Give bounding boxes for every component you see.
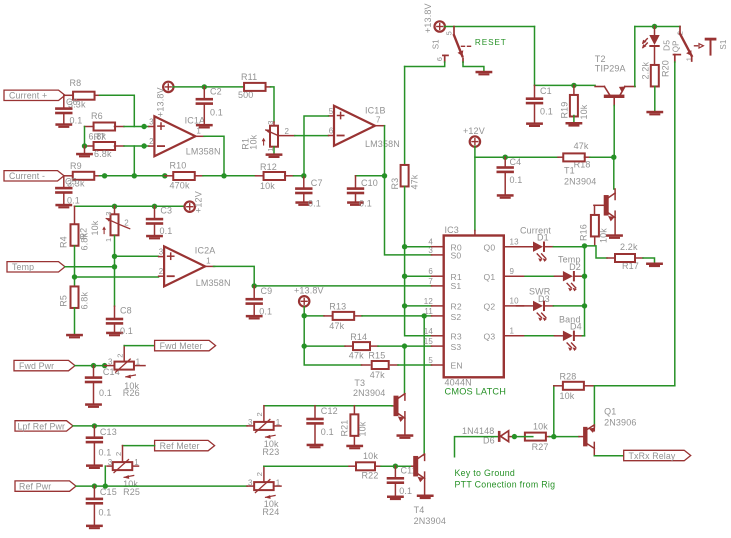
svg-text:EN: EN xyxy=(451,361,463,371)
svg-text:5: 5 xyxy=(445,31,454,35)
svg-text:10k: 10k xyxy=(579,104,589,119)
svg-text:S0: S0 xyxy=(451,251,462,261)
svg-text:10: 10 xyxy=(510,297,520,306)
svg-text:QP: QP xyxy=(672,40,681,52)
svg-text:3: 3 xyxy=(108,458,113,467)
svg-text:Q0: Q0 xyxy=(484,242,496,252)
svg-text:Fwd Pwr: Fwd Pwr xyxy=(19,361,54,371)
svg-text:1: 1 xyxy=(276,478,281,487)
svg-text:C4: C4 xyxy=(510,157,522,167)
svg-text:6: 6 xyxy=(435,57,444,61)
svg-text:6.8k: 6.8k xyxy=(80,292,90,310)
svg-text:10k: 10k xyxy=(90,220,100,235)
svg-text:IC1B: IC1B xyxy=(365,106,386,116)
svg-text:S1: S1 xyxy=(719,39,728,49)
svg-text:0.1: 0.1 xyxy=(67,196,80,206)
svg-text:2: 2 xyxy=(255,472,264,476)
svg-text:47k: 47k xyxy=(370,370,385,380)
svg-text:6: 6 xyxy=(329,127,334,136)
svg-text:1N4148: 1N4148 xyxy=(462,426,494,436)
svg-text:C9: C9 xyxy=(261,286,273,296)
svg-text:R19: R19 xyxy=(559,102,569,119)
svg-text:C2: C2 xyxy=(210,87,222,97)
svg-text:R12: R12 xyxy=(260,162,277,172)
svg-text:0.1: 0.1 xyxy=(99,388,112,398)
svg-text:R28: R28 xyxy=(560,372,577,382)
svg-text:+12V: +12V xyxy=(194,191,204,213)
svg-text:+13.8V: +13.8V xyxy=(423,3,433,33)
svg-text:9: 9 xyxy=(510,267,515,276)
svg-text:Temp: Temp xyxy=(12,262,34,272)
svg-text:15: 15 xyxy=(424,337,434,346)
svg-text:TIP29A: TIP29A xyxy=(595,64,626,74)
svg-text:R3: R3 xyxy=(451,332,462,342)
svg-text:R2: R2 xyxy=(451,302,462,312)
svg-text:1: 1 xyxy=(206,256,211,265)
svg-text:6: 6 xyxy=(428,267,433,276)
svg-text:0.1: 0.1 xyxy=(321,427,334,437)
svg-text:S2: S2 xyxy=(451,312,462,322)
svg-text:0.1: 0.1 xyxy=(70,115,83,125)
svg-text:2N3904: 2N3904 xyxy=(564,177,596,187)
svg-text:+12V: +12V xyxy=(463,126,485,136)
svg-text:R13: R13 xyxy=(329,301,346,311)
svg-text:10k: 10k xyxy=(363,451,378,461)
svg-text:1: 1 xyxy=(104,238,113,242)
svg-text:10k: 10k xyxy=(357,421,367,436)
svg-text:10k: 10k xyxy=(560,391,575,401)
svg-text:C1: C1 xyxy=(540,86,552,96)
svg-text:R8: R8 xyxy=(70,78,82,88)
svg-text:3: 3 xyxy=(108,357,113,366)
svg-text:11: 11 xyxy=(424,307,433,316)
svg-text:R3: R3 xyxy=(390,178,400,190)
svg-text:2: 2 xyxy=(114,452,123,456)
svg-text:Key to Ground: Key to Ground xyxy=(455,468,516,478)
svg-text:7: 7 xyxy=(428,277,433,286)
svg-text:D5: D5 xyxy=(662,40,672,51)
svg-text:T4: T4 xyxy=(414,505,425,515)
svg-text:R7: R7 xyxy=(94,132,106,142)
svg-text:R5: R5 xyxy=(59,295,69,307)
svg-text:0.1: 0.1 xyxy=(99,508,112,518)
svg-text:0.1: 0.1 xyxy=(210,107,223,117)
svg-text:1: 1 xyxy=(510,327,515,336)
svg-text:47k: 47k xyxy=(409,174,419,189)
svg-text:R10: R10 xyxy=(170,161,187,171)
svg-text:0.1: 0.1 xyxy=(259,306,272,316)
svg-text:2.2k: 2.2k xyxy=(620,242,638,252)
svg-text:T2: T2 xyxy=(595,54,606,64)
svg-text:0.1: 0.1 xyxy=(540,107,553,117)
svg-text:D4: D4 xyxy=(570,322,582,332)
svg-text:0.1: 0.1 xyxy=(399,486,412,496)
svg-text:R4: R4 xyxy=(59,236,69,248)
svg-text:3: 3 xyxy=(248,478,253,487)
svg-text:13: 13 xyxy=(510,238,520,247)
svg-text:14: 14 xyxy=(424,327,434,336)
svg-text:5: 5 xyxy=(329,107,334,116)
svg-text:C7: C7 xyxy=(311,178,323,188)
svg-text:Q1: Q1 xyxy=(604,406,616,416)
svg-text:R11: R11 xyxy=(241,72,257,82)
svg-text:2: 2 xyxy=(159,267,164,276)
svg-text:+13.8V: +13.8V xyxy=(294,286,324,296)
svg-text:10k: 10k xyxy=(260,181,275,191)
svg-text:3: 3 xyxy=(266,120,275,124)
svg-text:3: 3 xyxy=(149,118,154,127)
svg-text:Q1: Q1 xyxy=(484,272,496,282)
svg-text:3: 3 xyxy=(159,248,164,257)
svg-text:T1: T1 xyxy=(564,166,575,176)
svg-text:Q2: Q2 xyxy=(484,302,496,312)
svg-text:Fwd Meter: Fwd Meter xyxy=(160,341,203,351)
svg-text:1: 1 xyxy=(276,418,281,427)
svg-text:3: 3 xyxy=(248,418,253,427)
svg-text:R14: R14 xyxy=(350,332,367,342)
svg-text:Q3: Q3 xyxy=(484,332,496,342)
svg-text:C12: C12 xyxy=(321,406,338,416)
svg-text:47k: 47k xyxy=(329,321,344,331)
svg-text:Lpf Ref Pwr: Lpf Ref Pwr xyxy=(18,421,66,431)
svg-text:S1: S1 xyxy=(432,39,441,49)
svg-text:3: 3 xyxy=(428,246,433,255)
svg-text:1: 1 xyxy=(136,357,141,366)
svg-text:0.1: 0.1 xyxy=(120,326,133,336)
svg-text:LM358N: LM358N xyxy=(196,278,231,288)
svg-text:TxRx Relay: TxRx Relay xyxy=(629,451,676,461)
svg-text:0.1: 0.1 xyxy=(510,175,523,185)
svg-text:R27: R27 xyxy=(532,442,549,452)
svg-text:C8: C8 xyxy=(120,305,132,315)
svg-text:IC2A: IC2A xyxy=(195,245,216,255)
svg-text:R9: R9 xyxy=(70,161,82,171)
svg-text:6.8k: 6.8k xyxy=(94,149,112,159)
svg-text:0.1: 0.1 xyxy=(359,198,372,208)
svg-text:R20: R20 xyxy=(660,60,670,77)
svg-text:R16: R16 xyxy=(578,224,588,241)
svg-text:Ref Meter: Ref Meter xyxy=(160,441,200,451)
svg-text:R26: R26 xyxy=(123,388,140,398)
svg-text:LM358N: LM358N xyxy=(365,139,400,149)
svg-text:+13.8V: +13.8V xyxy=(156,87,166,117)
svg-text:CMOS LATCH: CMOS LATCH xyxy=(445,386,507,396)
svg-text:2N3906: 2N3906 xyxy=(604,417,636,427)
svg-text:D2: D2 xyxy=(569,262,581,272)
svg-text:T3: T3 xyxy=(354,378,365,388)
svg-text:1: 1 xyxy=(134,458,139,467)
svg-text:470k: 470k xyxy=(170,181,190,191)
svg-text:2: 2 xyxy=(255,412,264,416)
svg-text:47k: 47k xyxy=(349,350,364,360)
svg-text:2: 2 xyxy=(149,137,154,146)
svg-text:47k: 47k xyxy=(574,141,589,151)
svg-text:12: 12 xyxy=(424,297,434,306)
svg-text:2.2k: 2.2k xyxy=(641,62,651,80)
svg-text:10k: 10k xyxy=(533,422,548,432)
svg-text:S1: S1 xyxy=(451,281,462,291)
svg-text:C3: C3 xyxy=(160,205,172,215)
svg-text:3: 3 xyxy=(104,211,113,215)
svg-text:7: 7 xyxy=(376,116,381,125)
svg-text:R23: R23 xyxy=(262,447,279,457)
svg-text:RESET: RESET xyxy=(475,38,507,47)
svg-text:5: 5 xyxy=(428,356,433,365)
svg-text:6.8k: 6.8k xyxy=(80,233,90,251)
svg-text:R25: R25 xyxy=(123,487,140,497)
svg-text:Current +: Current + xyxy=(9,91,47,101)
svg-text:C13: C13 xyxy=(100,427,117,437)
svg-text:2N3904: 2N3904 xyxy=(353,388,385,398)
svg-text:S3: S3 xyxy=(451,342,462,352)
svg-text:C15: C15 xyxy=(100,487,117,497)
svg-text:IC3: IC3 xyxy=(445,225,459,235)
svg-text:0.1: 0.1 xyxy=(308,198,321,208)
svg-text:LM358N: LM358N xyxy=(186,147,221,157)
svg-text:Ref Pwr: Ref Pwr xyxy=(19,482,51,492)
svg-text:2: 2 xyxy=(124,218,129,227)
svg-text:PTT Conection from Rig: PTT Conection from Rig xyxy=(455,480,556,490)
svg-text:Current -: Current - xyxy=(9,171,45,181)
svg-text:R21: R21 xyxy=(339,420,349,437)
svg-text:0.1: 0.1 xyxy=(99,447,112,457)
svg-text:R22: R22 xyxy=(362,470,379,480)
svg-text:10k: 10k xyxy=(249,134,259,149)
svg-text:2: 2 xyxy=(285,127,290,136)
svg-text:R15: R15 xyxy=(368,350,385,360)
svg-text:2N3904: 2N3904 xyxy=(414,516,446,526)
svg-text:R24: R24 xyxy=(262,507,279,517)
svg-text:0.1: 0.1 xyxy=(160,226,173,236)
svg-text:R6: R6 xyxy=(91,111,103,121)
svg-text:C10: C10 xyxy=(361,178,378,188)
svg-text:2: 2 xyxy=(116,353,125,357)
svg-text:D1: D1 xyxy=(537,233,549,243)
